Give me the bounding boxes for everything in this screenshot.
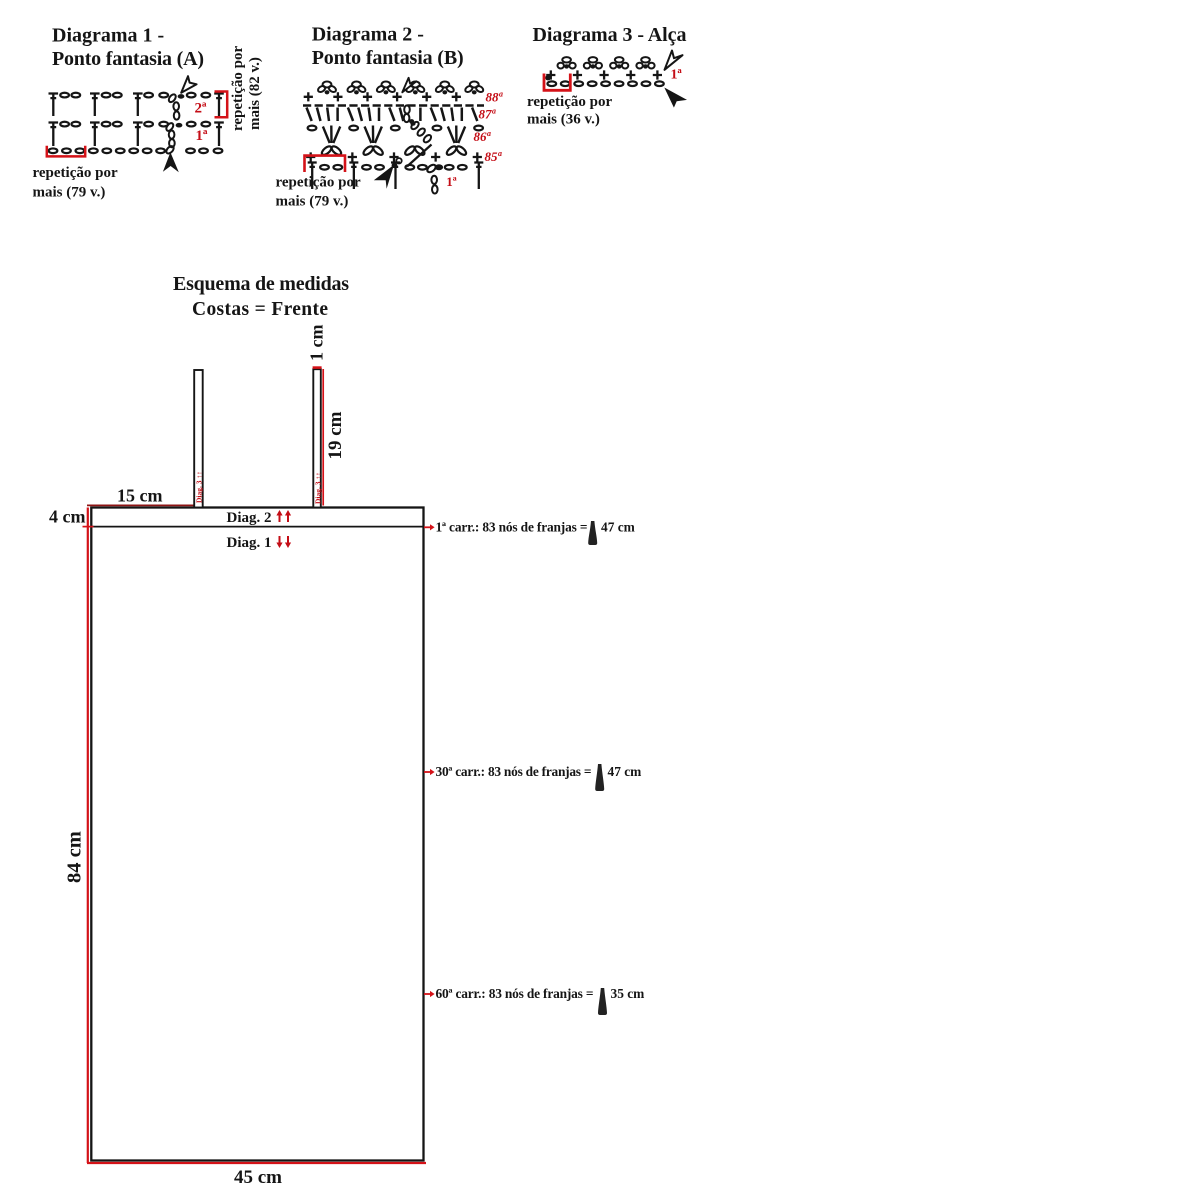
svg-text:1ª: 1ª: [196, 128, 209, 144]
right strap: [313, 369, 321, 507]
svg-text:1ª: 1ª: [446, 174, 457, 189]
diagram3 open arrow: [665, 51, 683, 70]
svg-text:47 cm: 47 cm: [601, 519, 635, 534]
diagram2 row 86 chains and fans: [308, 126, 483, 144]
diagram1 turning chain upper: [167, 93, 179, 120]
diagram2 filled arrow: [374, 165, 394, 189]
diagram1 rotated repeat note: [230, 46, 263, 131]
diagram3 foundation chain: [547, 81, 663, 86]
svg-text:Esquema de medidas: Esquema de medidas: [173, 273, 349, 295]
svg-text:1 cm: 1 cm: [307, 325, 327, 361]
diagram1 bottom repeat note: [33, 165, 118, 201]
diagram2 turning chain middle diagonal: [410, 120, 432, 143]
inner band line: [91, 526, 423, 528]
diagram2 row 85 vee chains and sc: [306, 145, 482, 162]
svg-text:86ª: 86ª: [474, 129, 492, 144]
diagram2 bottom repeat note: [276, 175, 361, 210]
title Diagrama 1: [52, 25, 204, 70]
svg-text:47 cm: 47 cm: [608, 764, 642, 779]
svg-text:Diag. 1: Diag. 1: [227, 535, 272, 551]
svg-text:30ª carr.: 83 nós de franjas =: 30ª carr.: 83 nós de franjas =: [436, 764, 592, 779]
svg-text:85ª: 85ª: [485, 149, 503, 164]
main body rectangle: [91, 508, 423, 1161]
diagram2 row 88 picots and sc: [304, 82, 485, 102]
svg-text:2ª: 2ª: [195, 101, 208, 117]
title Diagrama 2: [312, 23, 464, 68]
diagram2 turning chain upper: [404, 105, 414, 123]
label Diag 1 arrows: [227, 535, 292, 551]
diagram2 row 87 stems: [307, 108, 478, 122]
svg-text:Diagrama 3 - Alça: Diagrama 3 - Alça: [533, 24, 687, 46]
svg-text:Diag. 2: Diag. 2: [227, 510, 272, 526]
diagram2 start dot: [392, 163, 398, 168]
diagram1 right red repeat bracket: [215, 92, 228, 118]
svg-text:Ponto fantasia (B): Ponto fantasia (B): [312, 47, 464, 69]
diagram1 open arrow (start marker): [181, 76, 196, 93]
right strap red cap: [313, 366, 322, 369]
diagram3 picot row: [546, 57, 662, 80]
svg-text:Diag. 3 ↑↑: Diag. 3 ↑↑: [313, 472, 322, 504]
diagram3 filled arrow: [664, 88, 687, 108]
diagram3 red repeat bracket: [544, 74, 570, 91]
svg-text:15 cm: 15 cm: [117, 486, 162, 506]
diagram1 left red repeat bracket: [47, 146, 85, 157]
svg-text:mais (79 v.): mais (79 v.): [276, 194, 349, 210]
diagram1 filled arrow (direction): [163, 152, 179, 172]
red line bottom: [87, 1162, 426, 1164]
diagram1 foundation chain row: [49, 148, 223, 153]
diagram2 start loop: [396, 158, 401, 163]
diagram1 middle stitch row (1a carr): [49, 122, 224, 146]
diagram1 slip stitch dot middle: [176, 123, 183, 128]
diagram2 red row labels: [474, 89, 504, 164]
diagram3 repeat note: [527, 94, 612, 128]
red 15cm line: [87, 504, 194, 506]
svg-text:Ponto fantasia (A): Ponto fantasia (A): [52, 48, 204, 70]
svg-text:87ª: 87ª: [479, 106, 497, 121]
svg-text:repetição por: repetição por: [33, 165, 118, 181]
red tick at 4cm: [83, 526, 94, 528]
svg-text:1ª: 1ª: [671, 68, 683, 83]
svg-text:4 cm: 4 cm: [49, 507, 85, 527]
diagram1 turning chain lower: [165, 122, 175, 155]
diagram3 start dot: [545, 75, 551, 80]
red 19cm line: [322, 369, 324, 506]
svg-text:84 cm: 84 cm: [64, 831, 86, 883]
svg-text:repetição por: repetição por: [230, 46, 246, 131]
svg-text:1ª carr.: 83 nós de franjas =: 1ª carr.: 83 nós de franjas =: [436, 519, 588, 534]
red line left side: [87, 508, 89, 1164]
annotation row 2 fringe: [424, 764, 641, 791]
diagram2 foundation chain row: [308, 163, 484, 190]
svg-text:35 cm: 35 cm: [611, 986, 645, 1001]
svg-text:60ª carr.: 83 nós de franjas =: 60ª carr.: 83 nós de franjas =: [436, 986, 594, 1001]
diagram2 turning chain lower diagonal: [407, 145, 432, 167]
svg-text:88ª: 88ª: [486, 89, 504, 104]
svg-text:19 cm: 19 cm: [325, 411, 346, 459]
label Diag 2 arrows: [227, 510, 292, 526]
svg-text:Diagrama 2 -: Diagrama 2 -: [312, 23, 424, 45]
svg-text:repetição por: repetição por: [276, 175, 361, 191]
svg-text:Diagrama 1 -: Diagrama 1 -: [52, 25, 164, 47]
diagram2 red repeat bracket: [305, 156, 346, 172]
svg-text:mais (79 v.): mais (79 v.): [33, 185, 106, 201]
svg-text:Costas = Frente: Costas = Frente: [192, 299, 328, 320]
diagram2 open arrow: [402, 78, 416, 93]
annotation row 3 fringe: [424, 986, 644, 1015]
svg-text:Diag. 3 ↑↑: Diag. 3 ↑↑: [195, 471, 204, 503]
svg-text:mais (82 v.): mais (82 v.): [247, 57, 263, 130]
diagram1 slip stitch dot top: [178, 94, 185, 99]
left strap: [194, 370, 203, 508]
svg-text:mais (36 v.): mais (36 v.): [527, 112, 600, 128]
title Diagrama 3: [533, 24, 687, 46]
svg-text:repetição por: repetição por: [527, 94, 612, 110]
svg-text:45 cm: 45 cm: [234, 1167, 282, 1188]
diagram2 row 87 dash bar: [303, 104, 484, 107]
annotation row 1 fringe: [424, 519, 635, 545]
schematic title: [173, 273, 349, 320]
diagram2 hanging turning chain: [431, 176, 437, 194]
diagram1 top stitch row (2a carr): [49, 93, 224, 116]
